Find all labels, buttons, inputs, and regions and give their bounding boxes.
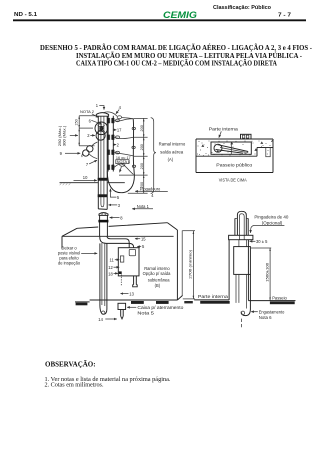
- svg-text:6: 6: [89, 119, 92, 124]
- insulator block 1: [107, 118, 110, 123]
- svg-text:9: 9: [60, 151, 63, 156]
- svg-text:14: 14: [98, 317, 103, 322]
- svg-text:DESENHO 5 - PADRÃO COM RAMAL D: DESENHO 5 - PADRÃO COM RAMAL DE LIGAÇÃO …: [40, 44, 313, 52]
- door slant line 3: [220, 148, 246, 153]
- pole side edge left: [234, 218, 236, 235]
- wall band bottom left part: [196, 155, 257, 157]
- leader 7: [89, 160, 97, 164]
- bundle connection loop a: [132, 127, 135, 129]
- meter circle: [214, 144, 222, 152]
- ground hatch band mid: [131, 301, 144, 304]
- hook end circle: [102, 311, 105, 314]
- svg-text:150: 150: [75, 119, 79, 125]
- svg-text:2: 2: [117, 142, 120, 147]
- svg-text:4: 4: [119, 105, 122, 110]
- band clamp lower: [98, 194, 108, 197]
- svg-text:Pingadeira de 40: Pingadeira de 40: [254, 214, 289, 219]
- door end tick: [245, 152, 249, 154]
- ground hatch passeio: [270, 301, 295, 304]
- svg-text:INSTALAÇÃO EM MURO OU MURETA –: INSTALAÇÃO EM MURO OU MURETA – LEITURA P…: [76, 52, 303, 60]
- left dim line 150/250: [78, 116, 80, 146]
- wall face right: [247, 240, 249, 301]
- leader 18: [114, 272, 118, 274]
- dim 30±5 arrow: [250, 240, 256, 242]
- svg-text:(B): (B): [155, 283, 161, 288]
- below-box conduit left pair: [236, 274, 239, 303]
- svg-text:Passeio: Passeio: [272, 296, 287, 301]
- ground rod tip: [121, 316, 124, 319]
- svg-text:ND - 5.1: ND - 5.1: [14, 12, 37, 18]
- door slant line 2: [216, 150, 244, 154]
- ground rod left: [120, 310, 122, 317]
- rack bar: [107, 116, 109, 172]
- svg-text:CAIXA TIPO CM-1 OU CM-2 – MEDI: CAIXA TIPO CM-1 OU CM-2 – MEDIÇÃO COM IN…: [76, 60, 277, 68]
- leader Nota 1: [132, 208, 153, 210]
- svg-text:1500±100: 1500±100: [266, 263, 270, 282]
- wall back top edge: [77, 223, 168, 229]
- curly brace: [151, 118, 156, 194]
- ground hatch interna: [200, 301, 230, 304]
- svg-text:Nota 1: Nota 1: [137, 204, 150, 209]
- meter box front: [118, 248, 139, 276]
- insulator block 3: [107, 150, 110, 155]
- arrowheads on left dim: [78, 116, 80, 146]
- wire stub 4: [114, 164, 133, 175]
- svg-text:saída aérea: saída aérea: [160, 149, 184, 154]
- dim 1500 vertical: [269, 248, 271, 301]
- pingadeira leader: [251, 225, 285, 232]
- pole left outer line: [97, 116, 99, 209]
- svg-text:VISTA DE CIMA: VISTA DE CIMA: [219, 178, 248, 183]
- eletroduto B inner right: [104, 243, 106, 306]
- wall right edge: [272, 139, 274, 173]
- wall left edge: [61, 236, 63, 248]
- leader 14: [105, 318, 117, 320]
- leader 13: [121, 293, 129, 295]
- arrow parte interna: [219, 131, 221, 137]
- leader 15: [135, 238, 140, 240]
- svg-text:200: 200: [140, 163, 144, 169]
- dim ext mid: [79, 127, 93, 129]
- wall line left of pole: [60, 182, 98, 184]
- svg-text:Nota 6: Nota 6: [259, 315, 273, 320]
- wire from C2 to curls: [82, 142, 98, 159]
- leader 5 box: [137, 245, 141, 248]
- svg-text:Nota 5: Nota 5: [137, 310, 154, 315]
- leader 250/300 arrow: [70, 134, 78, 136]
- leader 8: [110, 217, 120, 219]
- gooseneck inner: [239, 214, 244, 240]
- wire stub 3: [114, 152, 133, 156]
- concrete dots in wall band: [197, 141, 272, 156]
- leader NOTA 2: [92, 114, 99, 118]
- small hanging box: [266, 148, 270, 157]
- pole stub left line: [99, 215, 101, 236]
- leader 6: [91, 120, 102, 124]
- conduit stub below box left: [133, 276, 135, 285]
- svg-text:2. Cotas em milímetros.: 2. Cotas em milímetros.: [45, 382, 104, 389]
- pole right outer line: [106, 116, 108, 209]
- leader 2 left: [90, 134, 95, 136]
- svg-text:30 ± 5: 30 ± 5: [256, 239, 268, 244]
- conduit stub bell: [133, 285, 138, 287]
- eletroduto B bottom hook: [100, 306, 107, 315]
- leader engastamento: [251, 311, 258, 313]
- svg-text:15: 15: [141, 236, 146, 241]
- leader 3: [109, 204, 118, 206]
- svg-text:4: 4: [151, 193, 154, 198]
- svg-text:subterrânea: subterrânea: [148, 278, 171, 283]
- svg-text:8: 8: [120, 216, 123, 221]
- insulator block 2: [107, 135, 110, 140]
- svg-text:300 (Máx.): 300 (Máx.): [62, 125, 66, 146]
- leader 5 up-arrow: [110, 189, 116, 197]
- svg-text:7: 7: [86, 162, 89, 167]
- pole side top ticks: [235, 217, 248, 219]
- conduit elbow outer: [100, 236, 134, 248]
- svg-text:(A): (A): [168, 157, 174, 162]
- dark connector blob 18: [119, 271, 122, 274]
- leader 11: [115, 259, 120, 261]
- meter box side view: [234, 247, 251, 275]
- svg-text:5: 5: [142, 244, 145, 249]
- dashed hidden wire below box: [120, 274, 122, 285]
- wall face left: [228, 240, 230, 300]
- right dim arrowheads: [143, 119, 145, 194]
- svg-text:10: 10: [83, 175, 88, 180]
- leader 12: [114, 266, 120, 268]
- weatherhead cap: [96, 113, 108, 117]
- svg-text:OBSERVAÇÃO:: OBSERVAÇÃO:: [45, 360, 96, 368]
- svg-text:13: 13: [129, 291, 134, 296]
- ground rod right: [122, 310, 124, 317]
- svg-text:200: 200: [140, 125, 144, 131]
- eletroduto B outer left: [99, 243, 101, 305]
- svg-text:Opção p/ saída: Opção p/ saída: [143, 271, 171, 276]
- header rule: [13, 19, 306, 21]
- corner tick: [271, 139, 273, 141]
- insulator block 4: [107, 165, 110, 170]
- svg-text:Parte interna: Parte interna: [209, 127, 239, 132]
- right dim vertical line: [143, 118, 145, 193]
- dim 1500 arrowheads: [269, 248, 271, 300]
- conduit inner line right: [103, 117, 105, 204]
- wire stub 3 curl: [116, 151, 120, 154]
- leader caixa aterramento: [127, 306, 136, 308]
- wall top-left slant: [62, 228, 77, 236]
- door slant line 1: [219, 145, 249, 152]
- leader nota4: [120, 167, 122, 173]
- small latch rect: [120, 256, 123, 262]
- weatherhead wire curl: [117, 116, 121, 119]
- svg-text:Pingadouro: Pingadouro: [140, 186, 161, 191]
- buried dashes: [241, 319, 243, 328]
- conduit in wall left: [238, 240, 240, 247]
- dim 2700 ext top: [183, 230, 196, 232]
- leader 9: [65, 152, 80, 154]
- ground hatch band corner: [184, 301, 193, 303]
- pole stub right line: [106, 215, 108, 236]
- leader 4 top: [116, 110, 119, 114]
- eletroduto B outer right: [106, 243, 108, 309]
- wall top edge: [196, 138, 273, 140]
- wall left edge: [195, 139, 197, 173]
- svg-text:NOTA 2: NOTA 2: [80, 110, 94, 114]
- wall bottom-right slant: [177, 295, 182, 300]
- pole box inner marks: [242, 135, 244, 138]
- svg-text:3: 3: [118, 203, 121, 208]
- wire stub 4 curl: [120, 163, 125, 166]
- dim ext bottom: [79, 145, 94, 147]
- wall front top edge: [62, 235, 174, 237]
- meter window: [129, 249, 135, 255]
- svg-text:17: 17: [117, 127, 122, 132]
- buried hook circle: [241, 311, 245, 315]
- weatherhead mouth detail: [102, 213, 105, 215]
- pole top-view box: [241, 134, 252, 139]
- pole clamp band dark: [98, 220, 108, 223]
- svg-text:18: 18: [108, 271, 113, 276]
- svg-text:250 (Máx.): 250 (Máx.): [58, 125, 62, 146]
- drip loop U: [107, 171, 134, 193]
- below-box conduit right inner: [245, 274, 247, 308]
- pole side edge right: [247, 218, 249, 235]
- eletroduto B inner left: [101, 243, 103, 305]
- right dim ext ticks: [119, 118, 148, 193]
- ground hatch band far left: [76, 303, 88, 306]
- meter box top view: [211, 142, 251, 154]
- svg-text:200: 200: [140, 144, 144, 150]
- rack bar right: [112, 116, 114, 172]
- dark bolt blob in C1: [99, 126, 103, 131]
- pole bottom edge: [98, 208, 107, 211]
- wall bottom front edge: [90, 299, 178, 301]
- band clamp upper: [98, 178, 108, 181]
- wire stub 1 curl: [116, 119, 120, 122]
- grounding chamber box: [118, 303, 126, 309]
- meter box divider: [230, 142, 232, 154]
- svg-text:Ramal interno: Ramal interno: [159, 142, 186, 147]
- conduit elbow inner: [107, 236, 129, 248]
- dim 1500 ext top: [251, 247, 271, 249]
- dim 2700 ext bottom: [183, 298, 195, 300]
- wall band bottom right part: [257, 147, 273, 149]
- svg-text:1: 1: [96, 103, 99, 108]
- concrete triangle marks: [202, 142, 263, 152]
- tie strokes in C1: [98, 125, 105, 132]
- dim 2700 vertical: [192, 231, 194, 299]
- bundle connection loop b: [132, 146, 135, 148]
- ground line interna: [194, 299, 229, 301]
- bundle connection loop c: [132, 165, 135, 167]
- dim ext top: [79, 115, 96, 117]
- wall line right of pole: [108, 182, 125, 184]
- pingadeira slab: [229, 235, 253, 239]
- conduit inner line left: [100, 117, 102, 204]
- svg-text:Passeio público: Passeio público: [216, 162, 253, 167]
- svg-text:(Opcional): (Opcional): [262, 220, 283, 225]
- svg-text:CEMIG: CEMIG: [163, 10, 197, 20]
- wire stub 2: [114, 137, 133, 138]
- wall right edge: [176, 230, 178, 300]
- pingadouro leader: [135, 190, 168, 192]
- leader for 1: [99, 106, 104, 110]
- wire arc from weatherhead: [104, 112, 134, 119]
- svg-text:2700 (mínimo): 2700 (mínimo): [189, 249, 193, 279]
- band step vertical: [256, 148, 258, 157]
- gooseneck outer: [237, 211, 246, 235]
- svg-text:7 - 7: 7 - 7: [278, 13, 291, 19]
- leader 10: [74, 179, 97, 181]
- ground hatch band right: [156, 301, 169, 304]
- svg-text:de inspeção: de inspeção: [58, 261, 81, 266]
- svg-text:11: 11: [110, 258, 115, 263]
- wire curl loop A: [87, 146, 93, 152]
- wall back-right edge: [181, 231, 183, 296]
- sidewalk bottom edge: [196, 172, 273, 174]
- wall top-right slant: [168, 223, 178, 230]
- svg-text:12: 12: [108, 265, 113, 270]
- wall hatch ticks: [60, 183, 71, 185]
- hanging wire bundle: [133, 119, 134, 176]
- leader 17: [115, 129, 117, 131]
- wire curl loop B: [83, 150, 89, 156]
- conduit bottom U-bend: [101, 204, 104, 207]
- dim 2700 arrowheads: [193, 231, 195, 299]
- svg-text:5: 5: [117, 195, 120, 200]
- wire stub 1: [114, 119, 133, 122]
- wire stub 2 curl: [116, 136, 120, 139]
- ground line passeio: [248, 300, 295, 302]
- conduit in wall right: [245, 240, 247, 247]
- conduit stub below box right: [135, 276, 137, 285]
- leader 2 right: [115, 144, 117, 146]
- below-box conduit right pair: [241, 274, 250, 315]
- label NOTA 4 boxed: [116, 160, 129, 164]
- pole weatherhead cap lower: [99, 213, 108, 216]
- svg-text:2: 2: [87, 133, 90, 138]
- svg-text:NOTA 4: NOTA 4: [117, 160, 130, 164]
- ground line left extension: [75, 301, 90, 303]
- detail circle C1: [95, 122, 108, 135]
- svg-text:Parte interna: Parte interna: [198, 294, 229, 299]
- svg-text:Classificação: Público: Classificação: Público: [213, 5, 272, 11]
- detail circle C2: [96, 131, 105, 140]
- leader deixar: [81, 252, 97, 254]
